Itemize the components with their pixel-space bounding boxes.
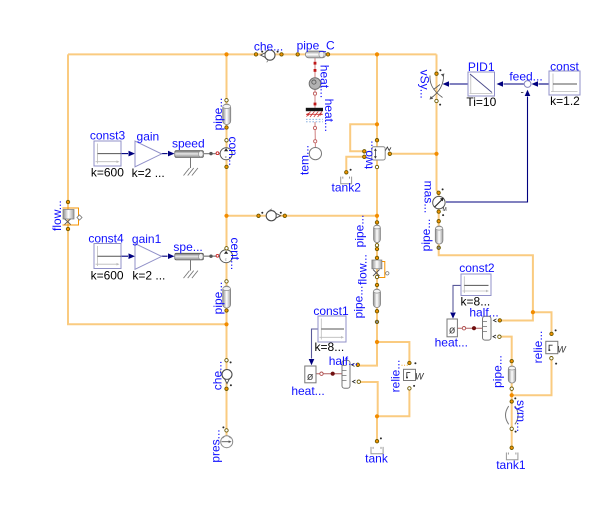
svg-text:che...: che... bbox=[254, 39, 283, 53]
svg-text:const: const bbox=[550, 59, 579, 73]
svg-text:heat...: heat... bbox=[435, 335, 468, 349]
pipe (right column, below mas) bbox=[435, 226, 443, 244]
signal const3 to gain bbox=[121, 151, 135, 157]
svg-text:gain1: gain1 bbox=[132, 232, 162, 246]
pipe (left column top) bbox=[223, 104, 231, 125]
wire tank2 to two left port lower bbox=[346, 157, 364, 173]
port speck marks bbox=[222, 51, 557, 440]
svg-text:const1: const1 bbox=[313, 304, 349, 318]
svg-text:heat...: heat... bbox=[322, 99, 336, 132]
svg-text:che...: che... bbox=[211, 361, 225, 390]
svg-text:two...: two... bbox=[362, 140, 376, 169]
svg-text:c: c bbox=[225, 256, 227, 261]
svg-text:flow...: flow... bbox=[50, 200, 64, 231]
svg-text:tank2: tank2 bbox=[332, 180, 362, 194]
wire half2 bottom to pipe3 and down to tank1 bbox=[500, 337, 512, 448]
pipe (middle column b) bbox=[373, 289, 380, 308]
wire right column through vSy and mas bbox=[437, 54, 533, 312]
svg-text:con...: con... bbox=[226, 137, 240, 166]
signal const1 to heat1 bbox=[309, 329, 318, 365]
convection element bbox=[306, 108, 323, 122]
svg-text:tank1: tank1 bbox=[496, 458, 526, 472]
tank symbol bbox=[371, 447, 383, 454]
pressure boundary pres bbox=[221, 436, 233, 448]
flow resistance flow (middle) bbox=[372, 260, 389, 278]
svg-text:flow...: flow... bbox=[356, 254, 370, 285]
port markers bbox=[66, 53, 553, 450]
relief valve relie1 bbox=[404, 369, 426, 381]
svg-text:k=2 ...: k=2 ... bbox=[132, 166, 165, 180]
wire two right port to right column bbox=[390, 153, 437, 155]
heater heat1 bbox=[305, 366, 316, 383]
pump con (top) bbox=[204, 148, 232, 160]
wire middle column bbox=[376, 54, 378, 342]
const block (k=1.2) bbox=[549, 71, 580, 95]
svg-text:tem...: tem... bbox=[298, 145, 312, 175]
svg-text:const4: const4 bbox=[88, 232, 124, 246]
const4 block bbox=[94, 244, 121, 269]
svg-text:pipe...: pipe... bbox=[352, 215, 366, 248]
wire two left port upper bbox=[350, 124, 377, 151]
svg-text:W: W bbox=[557, 345, 567, 355]
half2 component bbox=[483, 316, 497, 340]
PID1 block bbox=[468, 72, 495, 96]
const3 block bbox=[94, 141, 121, 166]
wire junction to relie1 top bbox=[377, 342, 409, 362]
pump cent bbox=[204, 250, 233, 263]
svg-text:Ti=10: Ti=10 bbox=[466, 95, 496, 109]
wire junction to relie2 top bbox=[533, 312, 552, 334]
thermal line convection to tem bbox=[313, 122, 316, 148]
pipe (middle column a) bbox=[374, 225, 381, 243]
wire top horizontal bbox=[68, 53, 437, 55]
thermal line heat1 to half1 bbox=[316, 372, 342, 376]
svg-text:pipe...: pipe... bbox=[211, 98, 225, 131]
wire junction to tank bbox=[376, 416, 378, 441]
signal gain to speed bbox=[162, 151, 175, 157]
svg-text:cent...: cent... bbox=[228, 237, 242, 270]
half1 component bbox=[342, 360, 356, 388]
thermal line heatcap to convection bbox=[313, 89, 316, 108]
svg-text:relie...: relie... bbox=[389, 360, 403, 393]
pipe pipe_C bbox=[306, 51, 326, 58]
svg-text:pipe_C: pipe_C bbox=[297, 39, 335, 53]
svg-text:k=1.2: k=1.2 bbox=[550, 94, 580, 108]
svg-text:const3: const3 bbox=[90, 129, 126, 143]
svg-text:const2: const2 bbox=[459, 261, 495, 275]
svg-text:mas...: mas... bbox=[422, 181, 436, 214]
heater heat2 bbox=[447, 319, 457, 337]
speed source bbox=[175, 151, 204, 176]
svg-text:k=600: k=600 bbox=[91, 269, 124, 283]
const1 block bbox=[318, 316, 346, 342]
svg-text:pipe...: pipe... bbox=[490, 355, 504, 388]
dotted fragment near relie1 bbox=[402, 364, 409, 366]
wire relie2 bottom to junction bbox=[512, 358, 552, 395]
relief valve relie2 bbox=[546, 341, 568, 354]
svg-text:half...: half... bbox=[329, 354, 358, 368]
check valve che (left bottom, vertical) bbox=[220, 370, 232, 384]
valve vSy bbox=[430, 74, 445, 100]
heat capacitor (gray circle) bbox=[309, 78, 321, 90]
pipe (right bottom) bbox=[508, 366, 515, 383]
signal mas to feed bbox=[446, 90, 530, 202]
signal gain1 to spe bbox=[162, 253, 175, 259]
svg-text:k=8...: k=8... bbox=[315, 340, 345, 354]
check valve che (top) bbox=[261, 50, 275, 62]
check valve che (middle horizontal) bbox=[266, 209, 280, 221]
gain block bbox=[135, 141, 162, 167]
tank1 symbol bbox=[506, 453, 518, 460]
wire left column bbox=[226, 54, 228, 437]
svg-text:-: - bbox=[521, 88, 524, 99]
wire relie1 bottom to junction bbox=[377, 388, 409, 416]
svg-text:pipe...: pipe... bbox=[211, 282, 225, 315]
wire half1 bottom port down bbox=[360, 382, 378, 416]
tank2 symbol bbox=[341, 177, 352, 184]
signal const4 to gain1 bbox=[121, 253, 135, 259]
svg-text:pres...: pres... bbox=[208, 429, 222, 462]
svg-text:ø: ø bbox=[307, 371, 314, 383]
svg-text:k=2 ...: k=2 ... bbox=[132, 269, 165, 283]
spe source (speed 2) bbox=[175, 253, 204, 278]
svg-text:gain: gain bbox=[137, 129, 160, 143]
valve sym bbox=[506, 406, 519, 424]
temperature sensor tem bbox=[309, 148, 321, 160]
svg-text:heat...: heat... bbox=[291, 384, 324, 398]
feedback feed bbox=[521, 81, 531, 99]
svg-text:pipe...: pipe... bbox=[419, 219, 433, 252]
thermal line heat2 to half2 bbox=[457, 326, 483, 330]
gain1 block bbox=[135, 244, 162, 270]
wire junction to half2 top port bbox=[500, 312, 533, 320]
svg-text:relie...: relie... bbox=[531, 331, 545, 364]
svg-text:k=8...: k=8... bbox=[461, 295, 491, 309]
svg-text:spe...: spe... bbox=[173, 240, 202, 254]
svg-text:tank: tank bbox=[365, 451, 389, 465]
wire junction to half1 top port bbox=[360, 342, 378, 366]
svg-text:PID1: PID1 bbox=[468, 60, 495, 74]
wire middle horizontal bbox=[227, 215, 378, 217]
svg-text:heat...: heat... bbox=[318, 65, 332, 98]
thermal line pipe_C to heatcap bbox=[314, 58, 317, 79]
svg-text:feed...: feed... bbox=[509, 69, 542, 83]
svg-text:sym...: sym... bbox=[514, 400, 528, 432]
flow resistance flow (left) bbox=[63, 208, 83, 225]
signal const to feed bbox=[532, 81, 550, 87]
svg-text:pipe...: pipe... bbox=[351, 286, 365, 319]
pipe (left column bottom) bbox=[223, 286, 231, 308]
wire top loop left vertical and bottom-left horizontal bbox=[68, 54, 227, 324]
svg-text:M: M bbox=[443, 207, 447, 213]
svg-text:speed: speed bbox=[172, 137, 205, 151]
two-port tank block two bbox=[372, 147, 391, 160]
signal const2 to heat2 bbox=[450, 285, 461, 318]
signal feed to PID1 bbox=[497, 81, 525, 87]
svg-text:k=600: k=600 bbox=[91, 166, 124, 180]
mass flow sensor mas bbox=[433, 196, 447, 213]
signal PID1 to vSy bbox=[443, 81, 469, 87]
svg-text:vSy...: vSy... bbox=[417, 70, 431, 99]
const2 block bbox=[461, 274, 491, 296]
